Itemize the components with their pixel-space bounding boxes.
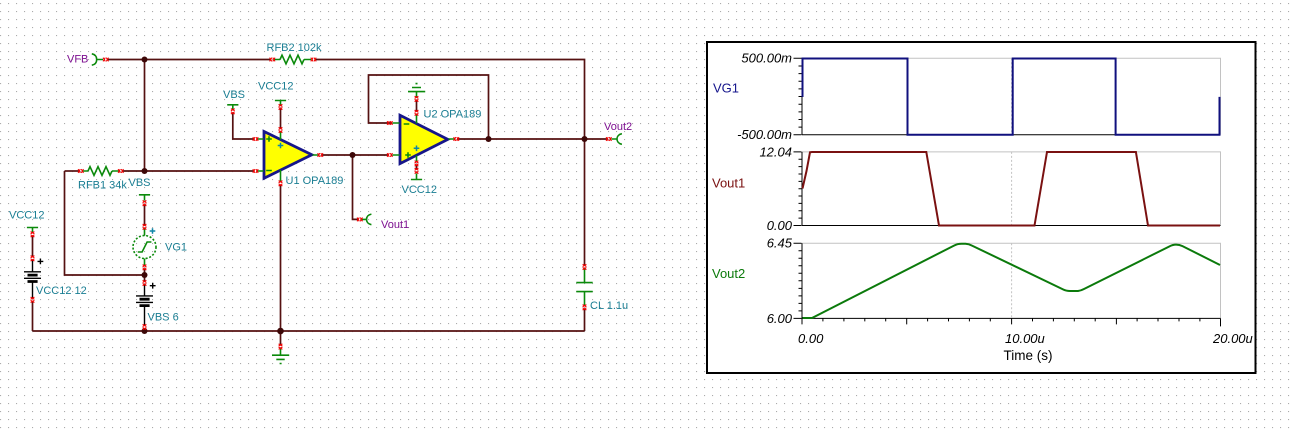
pin marker U2 top supply [415, 110, 419, 115]
voltage label VBS at U1 [227, 105, 238, 110]
pin marker VFB port [103, 58, 108, 62]
svg-text:VFB: VFB [67, 54, 88, 66]
ground symbol [272, 348, 289, 364]
op-amp U1 OPA189 [264, 132, 312, 179]
pin marker U2 VCC12 label [415, 168, 419, 173]
svg-text:CL 1.1u: CL 1.1u [590, 300, 628, 312]
resistor RFB1 [82, 170, 119, 172]
pin marker CL top [583, 264, 587, 269]
wire U2 feedback loop output node to inverting input [369, 75, 489, 139]
voltage label VBS above VG1 [139, 195, 150, 201]
wire Vout2 node down to CL top [584, 139, 586, 266]
port Vout2 [612, 134, 622, 145]
pin marker VBS label above VG1 [143, 201, 147, 206]
wire U1 output node down to Vout1 port [353, 155, 359, 219]
svg-text:VCC12: VCC12 [402, 184, 437, 196]
svg-text:VCC12: VCC12 [9, 210, 44, 222]
wire top rail VFB to RFB2 left [108, 59, 271, 61]
svg-text:6.00: 6.00 [767, 311, 793, 326]
battery VCC12 12 [24, 260, 41, 299]
pin marker U2 bottom supply [415, 161, 419, 166]
svg-text:VBS: VBS [223, 89, 245, 101]
pin marker VG1 top [143, 224, 147, 229]
strip 1 VG1 grid box [802, 58, 1221, 135]
pin marker VBS6 battery top [143, 280, 147, 285]
pin marker RFB2 left [270, 58, 275, 62]
svg-text:20.00u: 20.00u [1212, 331, 1253, 346]
svg-text:-500.00m: -500.00m [737, 127, 792, 142]
x axis major ticks [802, 318, 1221, 326]
svg-text:Vout1: Vout1 [712, 176, 745, 191]
svg-text:VBS 6: VBS 6 [148, 312, 179, 324]
pin marker VBS6 battery bottom [143, 324, 147, 329]
svg-text:0.00: 0.00 [767, 218, 793, 233]
svg-text:6.45: 6.45 [767, 236, 793, 251]
svg-text:Vout2: Vout2 [604, 121, 632, 133]
inverted ground symbol at U2 top [408, 84, 425, 98]
pin marker U1 inverting input [253, 169, 258, 173]
port VFB [92, 54, 103, 65]
pin marker U1 noninverting input [253, 137, 258, 141]
svg-text:500.00m: 500.00m [741, 51, 792, 66]
wire U2 output to Vout2 port [457, 138, 607, 140]
pin marker VG1 bottom [143, 265, 147, 270]
pin marker VCC12 label left [31, 232, 35, 237]
pin marker RFB1 right [118, 169, 123, 173]
junction node VFB/RFB2 [142, 57, 148, 63]
pin marker VBS label at U1 [231, 109, 235, 114]
pin marker U2 noninverting input [387, 153, 392, 157]
wire RFB1 left lead to left column [65, 170, 80, 172]
pin marker U2 inverted ground [415, 96, 419, 101]
svg-text:Time (s): Time (s) [1004, 348, 1053, 363]
wire VBS label to VG1 top pin [144, 205, 146, 225]
pin marker Vout2 port [606, 137, 611, 141]
pin marker RFB1 left [78, 169, 83, 173]
pin marker U2 inverting input [387, 121, 392, 125]
junction node U1 output / Vout1 [350, 152, 356, 158]
wire U1 negative supply pin down to bottom rail [280, 185, 282, 331]
svg-text:VCC12: VCC12 [258, 81, 293, 93]
svg-text:12.04: 12.04 [759, 144, 792, 159]
pin marker U1 bottom supply [279, 181, 283, 186]
svg-text:U1 OPA189: U1 OPA189 [286, 175, 344, 187]
pin marker ground [279, 344, 283, 349]
x axis minor ticks [823, 318, 1200, 321]
svg-text:VCC12 12: VCC12 12 [36, 285, 87, 297]
trace VG1 square wave [803, 59, 1220, 135]
wire VBS6 battery bottom to ground rail [144, 329, 146, 332]
wire U2 top supply pin to inverted ground [416, 101, 418, 112]
svg-text:RFB1 34k: RFB1 34k [78, 180, 127, 192]
svg-text:0.00: 0.00 [798, 331, 824, 346]
diagram panel frame [707, 42, 1256, 373]
pin marker U2 output [454, 137, 459, 141]
junction node U2 feedback [486, 136, 492, 142]
op-amp U2 OPA189 [400, 115, 448, 163]
wire top rail RFB2 right to top-right corner and down to Vout2 node [316, 60, 585, 140]
junction node VG1 bottom [142, 272, 148, 278]
pin marker CL bottom [583, 305, 587, 310]
wire U2 bottom supply pin to VCC12 label [416, 165, 418, 169]
junction node VBS6 bottom rail [142, 328, 148, 334]
trace Vout1 trapezoid wave [803, 152, 1221, 226]
wire VBS label down to U1 non-inverting input [233, 113, 254, 139]
wire left column down and right to VG1 bottom node [65, 171, 145, 275]
junction node U1 supply rail [277, 328, 284, 335]
svg-text:U2 OPA189: U2 OPA189 [424, 109, 482, 121]
strip 3 Vout2 grid box [802, 243, 1221, 318]
pin marker VCC12 battery bottom [31, 297, 35, 302]
battery VBS 6 [136, 285, 153, 327]
svg-text:10.00u: 10.00u [1005, 331, 1045, 346]
voltage label VCC12 at U2 bottom [411, 174, 422, 180]
svg-text:Vout2: Vout2 [712, 266, 745, 281]
pin marker Vout1 port [357, 218, 362, 222]
wire bottom rail to ground symbol [280, 331, 282, 345]
wire VCC12 label to U1 positive supply pin [280, 109, 282, 129]
wire VCC12 label to VCC12 battery top [32, 236, 34, 257]
pin marker U1 VCC12 label [279, 104, 283, 109]
wire VCC12 battery bottom to bottom rail [32, 301, 34, 331]
svg-text:VG1: VG1 [713, 81, 739, 96]
pin marker U1 output [318, 153, 323, 157]
capacitor CL 1.1u [576, 269, 592, 306]
svg-text:Vout1: Vout1 [381, 219, 409, 231]
svg-text:VBS: VBS [129, 177, 151, 189]
voltage generator VG1 [133, 236, 156, 259]
junction node Vout2 / CL [582, 136, 588, 142]
wire U1 output to U2 non-inverting input [322, 154, 389, 156]
junction node RFB1/U1 inverting [142, 168, 148, 174]
pin marker U1 top supply [279, 127, 283, 132]
wire CL bottom to bottom rail [584, 309, 586, 331]
wire bottom rail [33, 330, 585, 332]
pin marker VCC12 battery top [31, 256, 35, 261]
wire VFB node down to RFB1 row [144, 60, 146, 172]
svg-text:RFB2 102k: RFB2 102k [267, 42, 323, 54]
wire VG1 bottom pin to VBS6 battery top [144, 269, 146, 282]
wire RFB1 right to U1 inverting input [123, 170, 255, 172]
voltage label VCC12 left [27, 228, 38, 233]
strip 2 Vout1 grid box [802, 152, 1221, 226]
svg-text:VG1: VG1 [165, 242, 187, 254]
resistor RFB2 [274, 59, 311, 61]
voltage label VCC12 at U1 top [275, 101, 286, 106]
port Vout1 [361, 214, 371, 225]
pin marker RFB2 right [311, 58, 316, 62]
trace Vout2 triangle wave [803, 244, 1221, 318]
